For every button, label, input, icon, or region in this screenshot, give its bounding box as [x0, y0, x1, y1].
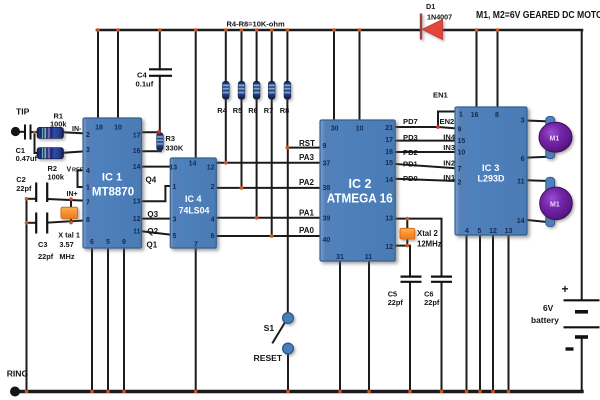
- svg-text:PA1: PA1: [299, 208, 315, 217]
- svg-text:V: V: [67, 166, 72, 173]
- svg-text:IC 4: IC 4: [185, 194, 202, 204]
- svg-text:R4: R4: [217, 106, 227, 115]
- svg-text:0.1uf: 0.1uf: [136, 80, 154, 89]
- svg-text:9: 9: [122, 239, 126, 246]
- svg-text:PA3: PA3: [299, 153, 315, 162]
- svg-text:38: 38: [323, 185, 331, 192]
- svg-text:16: 16: [385, 149, 393, 156]
- svg-text:3.57: 3.57: [59, 240, 73, 249]
- svg-text:S1: S1: [264, 323, 275, 333]
- svg-text:TIP: TIP: [16, 107, 30, 117]
- svg-text:100k: 100k: [48, 172, 65, 181]
- svg-text:PA2: PA2: [299, 178, 315, 187]
- svg-text:14: 14: [189, 161, 197, 168]
- svg-text:12MHz: 12MHz: [417, 239, 442, 248]
- svg-text:D1: D1: [426, 2, 435, 11]
- svg-text:5: 5: [106, 239, 110, 246]
- svg-text:10: 10: [458, 150, 466, 157]
- svg-text:22pf: 22pf: [388, 298, 404, 307]
- svg-text:R7: R7: [264, 106, 273, 115]
- svg-text:15: 15: [385, 160, 393, 167]
- svg-text:6: 6: [211, 233, 215, 240]
- svg-text:REF: REF: [72, 167, 84, 173]
- svg-text:R3: R3: [166, 134, 175, 143]
- svg-text:6: 6: [90, 239, 94, 246]
- svg-text:7: 7: [458, 166, 462, 173]
- svg-text:RST: RST: [299, 139, 315, 148]
- svg-text:C5: C5: [388, 289, 397, 298]
- svg-text:10: 10: [356, 126, 364, 133]
- svg-text:R6: R6: [248, 106, 257, 115]
- svg-text:100k: 100k: [50, 119, 67, 128]
- svg-text:2: 2: [86, 132, 90, 139]
- svg-text:1: 1: [173, 184, 177, 191]
- svg-text:Q3: Q3: [147, 210, 158, 219]
- svg-text:IN+: IN+: [67, 191, 78, 198]
- svg-text:Q4: Q4: [146, 176, 157, 185]
- svg-text:EN2: EN2: [440, 117, 455, 126]
- svg-text:74LS04: 74LS04: [179, 206, 210, 216]
- svg-text:IC 3: IC 3: [482, 163, 499, 174]
- svg-text:2: 2: [211, 184, 215, 191]
- svg-text:6: 6: [521, 156, 525, 163]
- svg-text:L293D: L293D: [477, 174, 505, 184]
- svg-text:4: 4: [86, 168, 90, 175]
- svg-text:2: 2: [458, 179, 462, 186]
- svg-text:14: 14: [385, 177, 393, 184]
- svg-text:MT8870: MT8870: [92, 187, 134, 199]
- svg-text:PD3: PD3: [403, 133, 418, 142]
- svg-text:16: 16: [471, 112, 479, 119]
- svg-text:IN4: IN4: [443, 132, 456, 141]
- svg-text:PA0: PA0: [299, 226, 315, 235]
- svg-text:22pf: 22pf: [38, 252, 54, 261]
- svg-text:RING: RING: [7, 369, 29, 379]
- svg-text:PD1: PD1: [403, 160, 419, 169]
- svg-text:battery: battery: [531, 315, 559, 325]
- svg-text:MHz: MHz: [59, 252, 74, 261]
- svg-text:12: 12: [385, 244, 393, 251]
- svg-text:40: 40: [323, 237, 331, 244]
- svg-text:IN2: IN2: [443, 158, 455, 167]
- svg-text:22pf: 22pf: [424, 298, 440, 307]
- svg-text:IN1: IN1: [443, 173, 456, 182]
- svg-text:R5: R5: [233, 106, 242, 115]
- svg-text:5: 5: [478, 228, 482, 235]
- svg-text:Xtal 2: Xtal 2: [417, 229, 438, 238]
- svg-text:+: +: [562, 282, 569, 296]
- svg-text:31: 31: [336, 254, 344, 261]
- svg-text:C4: C4: [137, 70, 147, 79]
- svg-text:12: 12: [489, 228, 497, 235]
- svg-text:30: 30: [331, 126, 339, 133]
- svg-text:7: 7: [194, 241, 198, 248]
- svg-text:PD7: PD7: [403, 117, 418, 126]
- svg-text:8: 8: [86, 217, 90, 224]
- svg-text:13: 13: [505, 228, 513, 235]
- svg-text:13: 13: [133, 199, 141, 206]
- svg-text:13: 13: [169, 164, 177, 171]
- svg-text:EN1: EN1: [433, 91, 449, 100]
- svg-text:14: 14: [517, 218, 525, 225]
- svg-text:RESET: RESET: [254, 353, 283, 363]
- svg-text:7: 7: [86, 199, 90, 206]
- svg-text:39: 39: [323, 215, 331, 222]
- svg-text:M1, M2=6V GEARED DC MOTOR: M1, M2=6V GEARED DC MOTOR: [476, 9, 600, 21]
- svg-text:IC 2: IC 2: [349, 176, 372, 191]
- svg-text:IN-: IN-: [72, 126, 82, 133]
- svg-text:9: 9: [323, 143, 327, 150]
- svg-text:21: 21: [385, 125, 393, 132]
- svg-text:IN3: IN3: [443, 143, 455, 152]
- svg-text:37: 37: [323, 160, 331, 167]
- svg-text:0.47uf: 0.47uf: [16, 154, 38, 163]
- svg-text:M1: M1: [550, 135, 560, 142]
- svg-text:R8: R8: [280, 106, 289, 115]
- svg-text:18: 18: [95, 125, 103, 132]
- svg-text:6V: 6V: [543, 303, 554, 313]
- svg-text:17: 17: [133, 132, 141, 139]
- svg-text:C3: C3: [38, 240, 47, 249]
- svg-text:5: 5: [173, 233, 177, 240]
- svg-text:IC 1: IC 1: [102, 172, 122, 184]
- svg-text:11: 11: [365, 254, 373, 261]
- svg-text:22pf: 22pf: [16, 184, 32, 193]
- svg-text:M1: M1: [550, 202, 560, 209]
- svg-text:PD0: PD0: [403, 174, 418, 183]
- svg-text:3: 3: [86, 147, 90, 154]
- svg-text:11: 11: [133, 228, 141, 235]
- svg-text:11: 11: [517, 178, 525, 185]
- svg-text:1: 1: [86, 184, 90, 191]
- svg-text:12: 12: [207, 164, 215, 171]
- svg-text:10: 10: [114, 125, 122, 132]
- svg-text:4: 4: [465, 228, 469, 235]
- svg-text:X tal 1: X tal 1: [58, 231, 80, 240]
- svg-text:3: 3: [521, 118, 525, 125]
- svg-text:PD2: PD2: [403, 148, 418, 157]
- svg-text:9: 9: [458, 126, 462, 133]
- svg-text:3: 3: [173, 217, 177, 224]
- svg-text:1: 1: [459, 112, 463, 119]
- svg-text:15: 15: [458, 138, 466, 145]
- svg-text:17: 17: [385, 137, 393, 144]
- svg-text:Q1: Q1: [147, 241, 158, 250]
- svg-text:13: 13: [385, 215, 393, 222]
- svg-text:12: 12: [133, 216, 141, 223]
- svg-text:14: 14: [133, 164, 141, 171]
- svg-text:ATMEGA 16: ATMEGA 16: [327, 191, 393, 206]
- svg-text:330K: 330K: [166, 143, 184, 152]
- svg-text:C6: C6: [424, 289, 433, 298]
- svg-text:1N4007: 1N4007: [427, 13, 452, 22]
- svg-text:4: 4: [211, 217, 215, 224]
- svg-text:8: 8: [495, 112, 499, 119]
- svg-text:C2: C2: [16, 175, 25, 184]
- svg-text:Q2: Q2: [147, 227, 158, 236]
- svg-text:R4-R8=10K-ohm: R4-R8=10K-ohm: [227, 20, 285, 29]
- svg-text:16: 16: [133, 148, 141, 155]
